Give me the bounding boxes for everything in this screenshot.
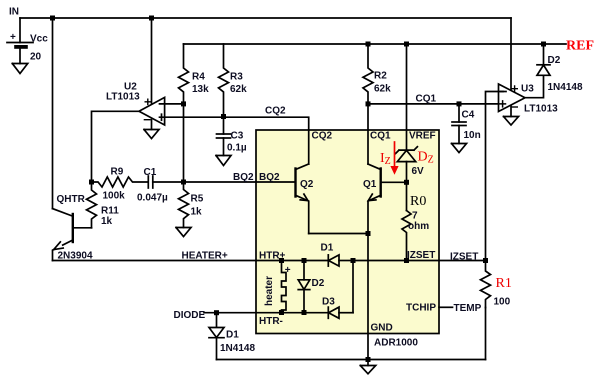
svg-text:QHTR: QHTR: [57, 194, 86, 205]
svg-text:IN: IN: [9, 7, 19, 18]
wire D1/D3 anode link vertical: [352, 261, 354, 313]
svg-text:DIODE: DIODE: [174, 310, 206, 321]
transistor Q1: [380, 169, 382, 197]
op-amp U3 triangle: [499, 84, 526, 112]
wire U3 V+ from rail: [510, 18, 512, 90]
svg-text:Q1: Q1: [363, 179, 377, 190]
resistor R4: [179, 44, 189, 104]
svg-text:R5: R5: [191, 194, 204, 205]
wire emitters to GND pin and bus: [367, 234, 369, 360]
svg-text:62k: 62k: [374, 84, 391, 95]
svg-text:CQ1: CQ1: [416, 94, 437, 105]
wire rail REF row: [184, 43, 567, 45]
diode D1 inside block: [329, 255, 340, 266]
svg-text:HEATER+: HEATER+: [182, 251, 228, 262]
svg-text:D1: D1: [226, 330, 239, 341]
ground symbol main: [367, 360, 369, 366]
svg-text:CQ1: CQ1: [370, 131, 391, 142]
svg-text:R3: R3: [230, 72, 243, 83]
op-amp U2 V- wire: [151, 120, 153, 130]
svg-text:0.1µ: 0.1µ: [227, 143, 247, 154]
wire U2 + input / CQ2 net: [160, 117, 309, 164]
wire IZSET row (D1 anode to block right and R1): [353, 260, 486, 262]
U2 input + mark: [161, 114, 163, 120]
ground under C4: [452, 144, 467, 153]
capacitor C4: [458, 104, 460, 122]
U3 input - mark: [501, 91, 506, 93]
heater element: [282, 261, 287, 313]
ground under C3: [216, 156, 231, 166]
wire vertical Vcc to QHTR collector: [52, 18, 54, 209]
wire U3 V-: [510, 106, 512, 117]
svg-text:HTR+: HTR+: [259, 251, 286, 262]
wire QHTR base: [73, 227, 92, 229]
wire HEATER+ inside block to heater top: [256, 260, 329, 262]
red current arrow Iz: [390, 142, 398, 175]
svg-text:6V: 6V: [412, 166, 425, 177]
wire HEATER+: [53, 260, 257, 262]
svg-text:C4: C4: [462, 110, 475, 121]
svg-text:100k: 100k: [103, 191, 126, 202]
svg-text:62k: 62k: [230, 84, 247, 95]
wire U2 output to feedback node: [92, 111, 140, 182]
svg-text:+: +: [10, 32, 16, 43]
diode D1 outside 1N4148: [216, 313, 218, 328]
svg-text:ADR1000: ADR1000: [374, 338, 418, 349]
svg-text:VREF: VREF: [409, 131, 436, 142]
svg-text:1k: 1k: [191, 207, 203, 218]
wire TCHIP to TEMP: [439, 306, 453, 308]
svg-text:1N4148: 1N4148: [220, 343, 255, 354]
zener diode Dz: [397, 150, 415, 161]
svg-text:+: +: [285, 265, 291, 276]
wire R4 node down to BQ2: [183, 104, 185, 182]
svg-text:20: 20: [30, 52, 42, 63]
resistor R2: [363, 44, 373, 104]
svg-text:LT1013: LT1013: [106, 92, 140, 103]
svg-text:100: 100: [494, 297, 511, 308]
wire CQ1 net: [368, 103, 499, 105]
svg-text:U3: U3: [521, 84, 534, 95]
svg-text:REF: REF: [566, 39, 594, 54]
U3 supply + mark: [512, 86, 517, 91]
svg-text:R4: R4: [192, 72, 205, 83]
resistor R0: [402, 211, 411, 261]
svg-text:R9: R9: [111, 167, 124, 178]
svg-text:2N3904: 2N3904: [58, 251, 93, 262]
svg-text:10n: 10n: [464, 130, 481, 141]
ground under battery: [12, 64, 27, 74]
svg-text:D2: D2: [548, 55, 561, 66]
svg-text:BQ2: BQ2: [233, 172, 254, 183]
wire common emitters: [309, 233, 368, 235]
svg-text:1k: 1k: [101, 216, 113, 227]
wire VREF pin from REF rail: [406, 44, 408, 150]
wire ground bus: [217, 359, 486, 361]
svg-text:0.047µ: 0.047µ: [137, 193, 168, 204]
wire BQ2 into block to Q2 base: [184, 181, 295, 183]
resistor R3: [219, 44, 229, 117]
ground under U2: [144, 130, 159, 139]
U2 supply - mark: [144, 119, 150, 121]
resistor R11: [87, 182, 97, 228]
wire U3 inverting input feedback: [486, 92, 504, 262]
svg-text:D3: D3: [322, 297, 335, 308]
svg-text:Vcc: Vcc: [30, 34, 48, 45]
svg-text:R0: R0: [410, 194, 426, 209]
resistor R5: [179, 182, 189, 228]
U3 supply - mark: [512, 106, 517, 108]
resistor R1: [481, 261, 491, 308]
transistor Q2: [294, 169, 296, 197]
svg-text:13k: 13k: [192, 84, 209, 95]
svg-text:IZSET: IZSET: [407, 250, 435, 261]
svg-text:IZSET: IZSET: [450, 252, 478, 263]
svg-text:R11: R11: [101, 206, 119, 217]
svg-text:R2: R2: [374, 71, 387, 82]
svg-text:1N4148: 1N4148: [548, 82, 583, 93]
svg-text:D2: D2: [312, 278, 325, 289]
svg-text:7: 7: [412, 211, 418, 222]
wire U3 output up to D2: [525, 75, 544, 97]
wire R1 bottom to ground bus: [485, 308, 487, 360]
svg-text:Q2: Q2: [300, 179, 314, 190]
svg-text:BQ2: BQ2: [259, 172, 280, 183]
diode D2 (to REF): [537, 65, 550, 75]
svg-text:TEMP: TEMP: [454, 303, 482, 314]
capacitor C3: [223, 117, 225, 135]
ground under R5: [176, 228, 191, 237]
capacitor C1: [147, 176, 149, 188]
svg-text:C1: C1: [144, 167, 157, 178]
svg-text:heater: heater: [264, 276, 275, 306]
wire top rail IN: [20, 17, 511, 19]
svg-text:CQ2: CQ2: [312, 131, 333, 142]
wire CQ1 pin into block: [367, 104, 369, 164]
wire Q1 base to zener column: [381, 181, 407, 183]
U2 supply + mark: [145, 99, 150, 104]
diode D3 inside block: [329, 307, 340, 318]
wire vertical Vcc to U2 V+: [151, 18, 153, 103]
ground under U3: [504, 117, 519, 126]
op-amp U2 triangle (mirrored, output left): [139, 97, 165, 125]
transistor QHTR 2N3904: [72, 214, 74, 242]
svg-text:R1: R1: [496, 276, 512, 291]
wire HTR- DIODE row: [204, 312, 329, 314]
ADR1000 block body: [256, 130, 439, 334]
battery V1 Vcc: [19, 18, 21, 43]
svg-text:ohm: ohm: [408, 221, 429, 232]
svg-text:C3: C3: [231, 131, 244, 142]
U3 input + mark: [500, 101, 506, 107]
svg-text:D1: D1: [321, 243, 334, 254]
svg-text:CQ2: CQ2: [265, 106, 286, 117]
svg-text:HTR-: HTR-: [259, 316, 283, 327]
resistor R9: [92, 177, 149, 187]
svg-text:GND: GND: [371, 323, 393, 334]
svg-text:LT1013: LT1013: [524, 104, 558, 115]
svg-text:TCHIP: TCHIP: [406, 303, 436, 314]
wire U2 inverting input to R4 node: [160, 103, 184, 105]
diode D2 inside block: [303, 261, 305, 280]
